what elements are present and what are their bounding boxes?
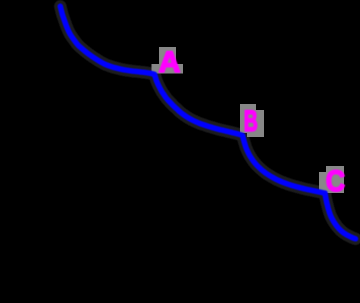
decay curve with cusps A,B,C [60, 6, 355, 239]
svg-text:A: A [159, 46, 181, 79]
curve dark artifact halo [60, 6, 355, 239]
label C artifact halo [319, 166, 344, 193]
svg-text:B: B [244, 105, 258, 138]
label B artifact halo [240, 104, 264, 137]
label A artifact halo [152, 47, 184, 74]
svg-text:C: C [326, 165, 345, 198]
